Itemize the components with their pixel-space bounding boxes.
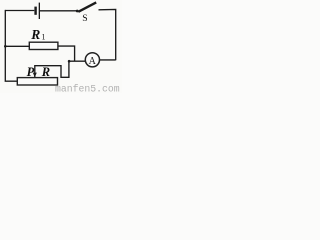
svg-text:A: A [89,56,97,67]
svg-text:P: P [27,65,35,79]
svg-text:1: 1 [42,33,46,42]
svg-text:S: S [82,13,87,24]
svg-text:R: R [30,27,40,42]
svg-text:R: R [41,65,50,79]
svg-text:manfen5.com: manfen5.com [55,84,120,94]
